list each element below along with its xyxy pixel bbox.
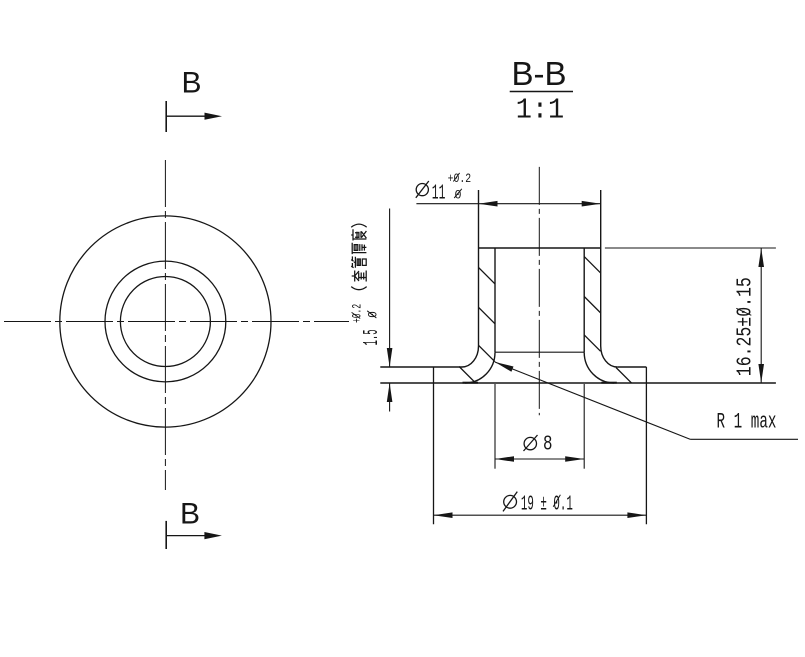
left rotated dimension text 1.5 +0.2/0 (sleeve thickness): [350, 224, 385, 345]
section arrow B bottom: head: [204, 532, 222, 539]
front view outer circle (flange O19): [60, 216, 271, 427]
O19 dimension text: [503, 492, 517, 512]
title underline B-B: [510, 91, 573, 93]
vertical centerline of front view: [164, 160, 166, 490]
section view: left inner wall: [494, 248, 496, 352]
hanzi hou (thick): [352, 243, 366, 254]
O8 right arrow: [565, 456, 584, 462]
svg-text:R 1 max: R 1 max: [717, 410, 777, 435]
O11 dimension text: [416, 181, 429, 198]
flange right edge + O19 extension down: [645, 367, 647, 524]
right rotated dimension text 16.25 +- 0.15: [735, 277, 758, 376]
O19 dimension line: [434, 514, 647, 516]
section arrow B top: tick: [165, 101, 167, 132]
O8 extension right below flange: [583, 384, 585, 469]
hatch right wall 2: [584, 297, 601, 314]
svg-text:19 ± 0.1: 19 ± 0.1: [521, 493, 573, 516]
left outer fillet: [462, 346, 479, 367]
O8 left arrow: [495, 456, 514, 462]
hatch right flange junction: [616, 368, 632, 384]
section view: right outer wall + extension up: [600, 190, 602, 346]
svg-text:B: B: [182, 66, 202, 99]
16.25 bottom arrow: [758, 364, 764, 383]
fullwidth open paren: [351, 287, 367, 290]
front view inner circle (bore O8): [120, 277, 210, 367]
hatch right wall 1: [584, 257, 601, 274]
left bore flare curve: [465, 352, 495, 383]
flange top left segment + 1.5 extension: [380, 366, 462, 368]
O19 left arrow: [434, 512, 453, 518]
right bore flare curve: [584, 352, 614, 383]
R1 leader arrowhead: [495, 362, 514, 372]
flange bottom line + extensions: [380, 382, 776, 384]
section arrow B top: shaft: [166, 115, 207, 117]
hanzi tao (sleeve): [352, 271, 367, 282]
section view: right inner wall: [583, 248, 585, 352]
16.25 top arrow: [758, 248, 764, 267]
16.25 dimension line: [760, 248, 762, 383]
O11 dimension line: [416, 203, 600, 205]
O8 dimension text: [524, 435, 538, 451]
R1 leader slanted segment: [495, 362, 690, 439]
flange top right segment: [617, 366, 646, 368]
1.5 dimension line upper: [389, 209, 391, 368]
fullwidth close paren: [351, 224, 367, 227]
hanzi guan (tube): [351, 256, 366, 267]
svg-text:1.5: 1.5: [361, 329, 384, 345]
section arrow B bottom: tick: [165, 521, 167, 549]
section view: top face: [479, 247, 601, 249]
O11 right arrow: [582, 201, 601, 207]
hanzi du (degree): [351, 229, 366, 240]
section arrow B top: head: [205, 113, 223, 120]
svg-text:0: 0: [455, 187, 462, 202]
hatch left flange junction: [459, 367, 475, 383]
svg-text:B: B: [180, 497, 200, 530]
O8 dimension line: [495, 458, 584, 460]
right outer fillet: [601, 346, 618, 367]
O19 right arrow: [627, 512, 646, 518]
1.5 upper arrow (down): [387, 348, 393, 367]
svg-text:11: 11: [432, 182, 446, 205]
O11 left arrow: [479, 201, 498, 207]
horizontal centerline of front view: [4, 321, 349, 323]
svg-text:8: 8: [543, 434, 553, 457]
hatch right fillet: [584, 335, 600, 351]
flare-bottom tangency thickening left: [463, 382, 479, 384]
O8 extension left below flange: [494, 384, 496, 469]
section view vertical centerline: [538, 167, 540, 415]
section arrow B bottom: shaft: [166, 535, 207, 537]
hatch left wall 1: [479, 267, 496, 284]
svg-text:0: 0: [366, 311, 381, 318]
flange left edge + O19 extension down: [433, 367, 435, 524]
section view: bore floor tangent line: [495, 351, 584, 353]
section view: left outer wall + extension up: [478, 190, 480, 346]
svg-text:B-B: B-B: [512, 55, 567, 92]
R1 leader horizontal segment: [690, 438, 798, 440]
svg-text:+0.2: +0.2: [350, 304, 365, 323]
16.25 top extension line: [605, 247, 776, 249]
hatch left fillet: [479, 345, 495, 361]
CJK annotation (sleeve thickness) drawn strokes: [351, 224, 367, 290]
1.5 lower arrow (up): [387, 383, 393, 402]
flare-bottom tangency thickening right: [601, 382, 617, 384]
front view middle circle (O11): [105, 261, 226, 382]
svg-text:1:1: 1:1: [516, 93, 565, 126]
hatch left wall 2: [479, 307, 496, 324]
1.5 dimension line lower tail: [389, 383, 391, 412]
svg-text:16.25±0.15: 16.25±0.15: [735, 277, 758, 376]
